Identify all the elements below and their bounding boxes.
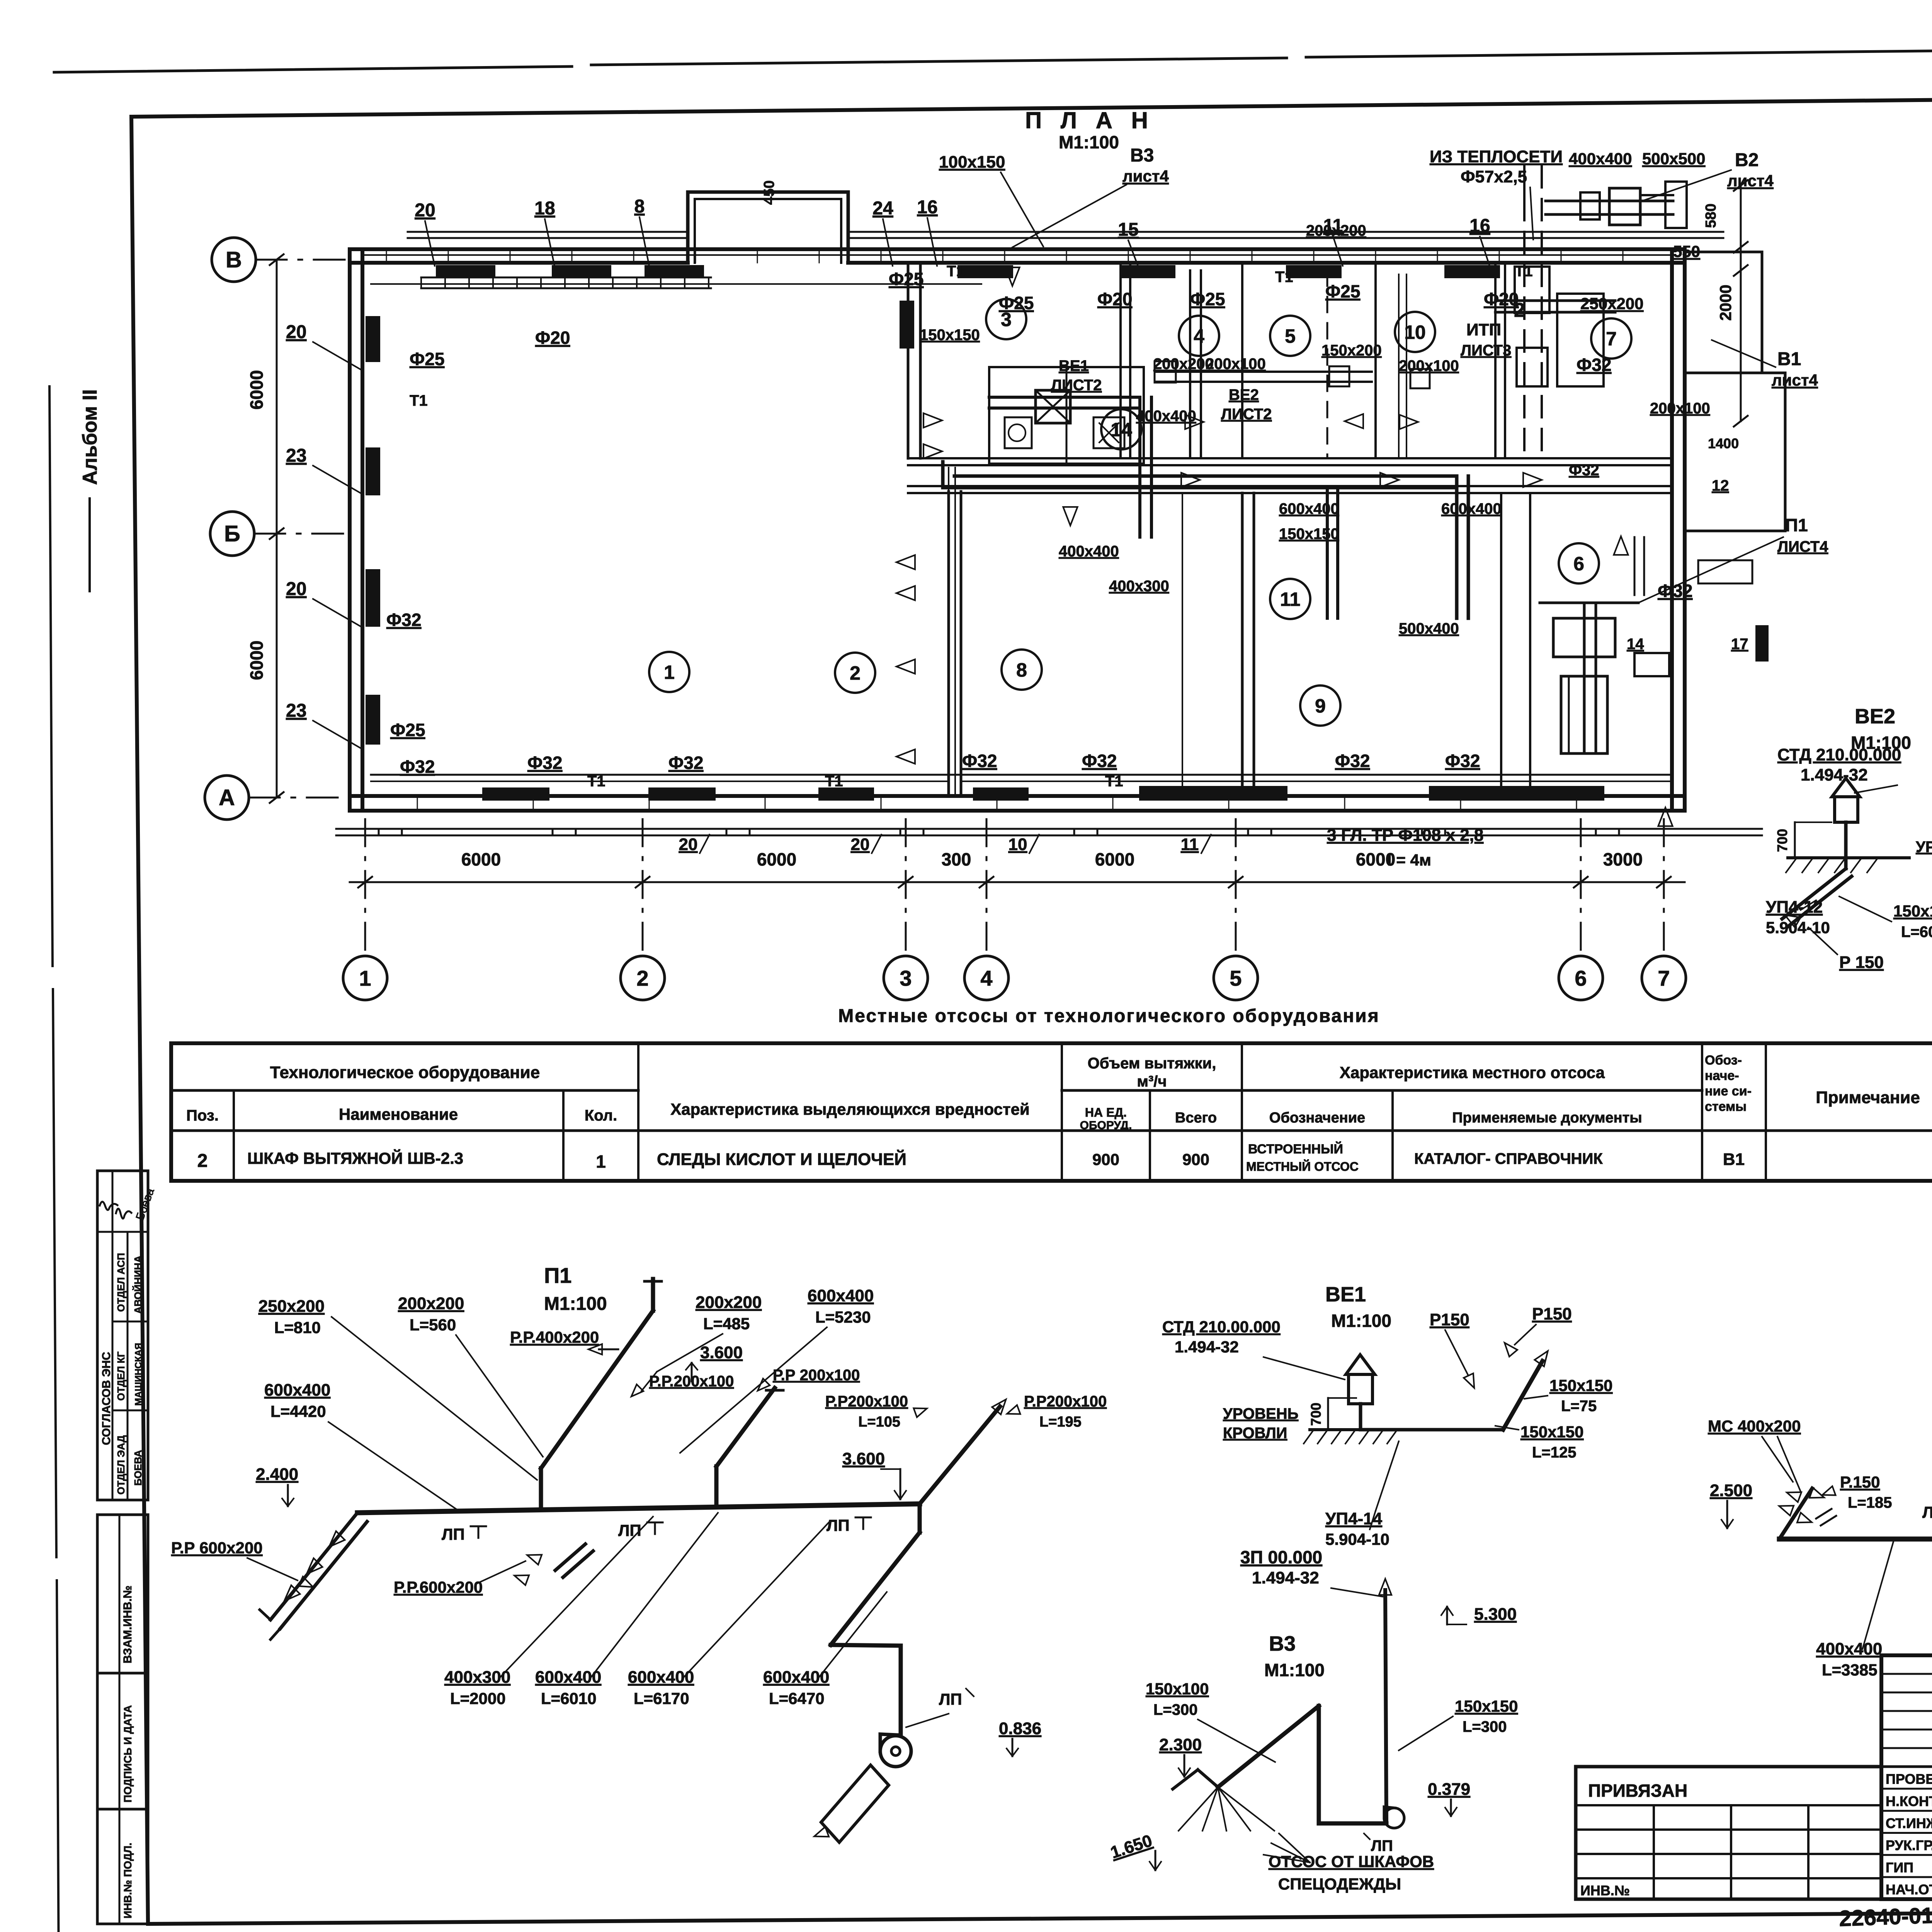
svg-text:Ф25: Ф25	[390, 720, 425, 740]
B3 fan blades	[1179, 1787, 1218, 1831]
svg-text:КАТАЛОГ- СПРАВОЧНИК: КАТАЛОГ- СПРАВОЧНИК	[1414, 1150, 1603, 1167]
svg-text:Кол.: Кол.	[585, 1107, 617, 1124]
svg-text:2: 2	[850, 662, 861, 684]
svg-text:ВЕ2: ВЕ2	[1855, 705, 1895, 728]
svg-text:Н.КОНТР.: Н.КОНТР.	[1886, 1793, 1932, 1809]
svg-text:L=6170: L=6170	[634, 1689, 689, 1708]
svg-text:стемы: стемы	[1705, 1099, 1747, 1114]
grille under wall	[421, 277, 711, 279]
svg-text:400x400: 400x400	[1816, 1639, 1882, 1658]
B2 left end	[1779, 1488, 1812, 1539]
svg-text:Ф20: Ф20	[1484, 289, 1519, 309]
svg-text:Р150: Р150	[1430, 1310, 1469, 1329]
svg-text:L=6470: L=6470	[769, 1689, 825, 1708]
svg-text:Р150: Р150	[1532, 1304, 1572, 1323]
svg-text:600x400: 600x400	[1441, 500, 1502, 517]
svg-text:Т1: Т1	[410, 392, 428, 409]
svg-text:ИТП: ИТП	[1466, 320, 1501, 339]
svg-text:ЛП: ЛП	[618, 1521, 641, 1539]
svg-text:5: 5	[1230, 966, 1242, 990]
svg-text:Ф25: Ф25	[1325, 281, 1360, 301]
svg-text:СТД 210.00.000: СТД 210.00.000	[1162, 1318, 1281, 1336]
svg-text:ОТДЕЛ ЭАД: ОТДЕЛ ЭАД	[115, 1435, 127, 1495]
svg-text:ИНВ.№: ИНВ.№	[1580, 1883, 1630, 1898]
svg-text:СПЕЦОДЕЖДЫ: СПЕЦОДЕЖДЫ	[1278, 1875, 1401, 1893]
svg-text:НАЧ.ОТД.: НАЧ.ОТД.	[1886, 1881, 1932, 1897]
svg-text:АВОЙНИНА: АВОЙНИНА	[132, 1255, 144, 1314]
svg-text:L=3385: L=3385	[1822, 1661, 1878, 1679]
svg-text:наче-: наче-	[1705, 1068, 1739, 1083]
corridor duct	[954, 474, 1457, 478]
svg-text:150x150: 150x150	[1279, 526, 1339, 543]
svg-text:УРОВЕНЬ: УРОВЕНЬ	[1223, 1405, 1298, 1422]
svg-text:М1:100: М1:100	[1851, 733, 1911, 753]
svg-text:400x400: 400x400	[1136, 408, 1196, 425]
svg-text:Р.Р.600x200: Р.Р.600x200	[394, 1578, 483, 1596]
svg-text:4: 4	[1194, 325, 1204, 347]
svg-text:600x400: 600x400	[1279, 500, 1339, 517]
svg-text:5: 5	[1285, 325, 1296, 347]
svg-text:МЕСТНЫЙ ОТСОС: МЕСТНЫЙ ОТСОС	[1246, 1160, 1359, 1173]
main frame border	[131, 93, 1932, 117]
heating pipes	[371, 774, 1669, 776]
svg-text:100x150: 100x150	[939, 153, 1005, 172]
svg-text:2.300: 2.300	[1159, 1735, 1202, 1754]
svg-text:Р.Р.400x200: Р.Р.400x200	[510, 1328, 599, 1346]
svg-text:лист4: лист4	[1727, 172, 1774, 190]
sheet outer top edge	[54, 66, 572, 72]
VE2 stack	[1835, 797, 1858, 822]
P1 fan outlet rhombus	[821, 1765, 889, 1842]
svg-text:2: 2	[197, 1151, 208, 1171]
svg-text:Характеристика выделяющихся: Характеристика выделяющихся вредностей	[670, 1100, 1030, 1118]
sheet outer left edge	[49, 386, 53, 966]
privyazan block	[1576, 1767, 1881, 1899]
svg-text:Ф32: Ф32	[962, 751, 997, 771]
svg-text:П Л А Н: П Л А Н	[1025, 107, 1154, 133]
svg-text:L=2000: L=2000	[450, 1689, 506, 1708]
svg-text:5.904-10: 5.904-10	[1766, 918, 1830, 937]
svg-text:Применяемые документы: Применяемые документы	[1452, 1110, 1642, 1126]
svg-text:Р.Р200x100: Р.Р200x100	[1024, 1393, 1107, 1410]
VE1 700 dim	[1327, 1398, 1329, 1430]
svg-text:ние си-: ние си-	[1705, 1084, 1752, 1099]
svg-text:23: 23	[286, 701, 306, 721]
svg-text:Т1: Т1	[947, 263, 965, 280]
VE2 duct diagonal	[1844, 860, 1848, 869]
svg-text:УРОВЕНЬ КРОВЛИ: УРОВЕНЬ КРОВЛИ	[1916, 838, 1932, 855]
svg-text:20: 20	[679, 835, 698, 854]
svg-text:14: 14	[1111, 419, 1132, 440]
svg-text:ИЗ ТЕПЛОСЕТИ: ИЗ ТЕПЛОСЕТИ	[1430, 147, 1563, 166]
svg-text:450: 450	[761, 180, 777, 205]
svg-text:ЛП: ЛП	[1922, 1503, 1932, 1521]
svg-text:L=810: L=810	[274, 1318, 321, 1337]
svg-text:11: 11	[1280, 588, 1301, 610]
column circles	[343, 956, 387, 1000]
svg-text:В2: В2	[1735, 150, 1759, 170]
svg-text:Р 150: Р 150	[1839, 953, 1884, 972]
svg-text:17: 17	[1731, 636, 1748, 653]
svg-text:Р.Р.200x100: Р.Р.200x100	[649, 1373, 734, 1390]
svg-text:Альбом II: Альбом II	[79, 389, 101, 485]
svg-text:8: 8	[634, 196, 645, 217]
svg-text:23: 23	[286, 446, 306, 466]
svg-text:ЛП: ЛП	[442, 1525, 465, 1543]
svg-text:2: 2	[636, 966, 648, 990]
title block main stamp	[1881, 1655, 1932, 1899]
svg-text:400x300: 400x300	[1109, 578, 1169, 595]
VE2 roof line	[1788, 856, 1909, 859]
svg-text:В1: В1	[1723, 1150, 1745, 1169]
svg-text:П1: П1	[1785, 515, 1808, 535]
svg-text:ОТСОС ОТ ШКАФОВ: ОТСОС ОТ ШКАФОВ	[1269, 1852, 1434, 1871]
P1 riser 1	[539, 1468, 543, 1509]
svg-text:0.836: 0.836	[999, 1719, 1041, 1738]
axis dim line vertical	[276, 260, 278, 798]
ITP dashed ducts	[1523, 166, 1526, 456]
svg-text:500x400: 500x400	[1399, 620, 1459, 637]
svg-text:КРОВЛИ: КРОВЛИ	[1223, 1425, 1287, 1442]
middle table grid	[171, 1043, 1932, 1181]
svg-text:Ф25: Ф25	[889, 269, 923, 289]
svg-text:НА ЕД.: НА ЕД.	[1085, 1105, 1127, 1119]
svg-text:Ф57х2,5: Ф57х2,5	[1461, 167, 1527, 186]
svg-text:700: 700	[1774, 829, 1790, 852]
door triangles	[923, 413, 942, 427]
svg-text:СТ.ИНЖ.: СТ.ИНЖ.	[1886, 1815, 1932, 1831]
svg-text:3000: 3000	[1603, 849, 1643, 869]
svg-text:L=105: L=105	[858, 1414, 900, 1430]
svg-text:12: 12	[1712, 477, 1729, 494]
svg-text:150x150: 150x150	[1893, 902, 1932, 920]
svg-text:10: 10	[1404, 321, 1426, 343]
plan outer walls	[350, 247, 1685, 251]
svg-text:Характеристика местного отсо: Характеристика местного отсоса	[1340, 1063, 1605, 1082]
svg-text:0.379: 0.379	[1428, 1780, 1470, 1799]
svg-text:Ф32: Ф32	[1577, 355, 1611, 375]
svg-text:В1: В1	[1777, 349, 1801, 369]
svg-text:Т1: Т1	[587, 773, 605, 790]
internal walls	[907, 263, 910, 458]
svg-text:ОБОРУД.: ОБОРУД.	[1080, 1119, 1132, 1132]
svg-text:Т1: Т1	[825, 773, 843, 790]
svg-text:МС 400x200: МС 400x200	[1708, 1417, 1801, 1435]
svg-text:150x150: 150x150	[1455, 1697, 1518, 1715]
svg-text:СЛЕДЫ КИСЛОТ И ЩЕЛОЧЕЙ: СЛЕДЫ КИСЛОТ И ЩЕЛОЧЕЙ	[657, 1149, 906, 1169]
room number circles	[649, 652, 689, 692]
plan plinth lines top	[408, 231, 688, 233]
svg-text:МАШИНСКАЯ: МАШИНСКАЯ	[133, 1343, 144, 1406]
svg-text:Обозначение: Обозначение	[1269, 1110, 1365, 1126]
svg-text:М1:100: М1:100	[544, 1294, 607, 1314]
svg-text:150x100: 150x100	[1146, 1680, 1209, 1698]
VE1 stack	[1349, 1374, 1372, 1404]
heat main pipes	[1523, 166, 1526, 205]
svg-text:16: 16	[917, 197, 937, 218]
svg-text:3П 00.000: 3П 00.000	[1240, 1547, 1322, 1567]
svg-text:150x150: 150x150	[920, 327, 980, 344]
svg-text:L=300: L=300	[1463, 1718, 1507, 1735]
svg-text:Ф25: Ф25	[410, 349, 444, 369]
VE2 700 dim	[1794, 822, 1796, 858]
svg-text:Ф32: Ф32	[386, 610, 421, 630]
plan plinth lines bottom	[336, 828, 1762, 830]
svg-text:Т1: Т1	[1105, 773, 1123, 790]
svg-text:6000: 6000	[1095, 849, 1134, 869]
svg-text:ВЕ1: ВЕ1	[1059, 357, 1089, 374]
svg-text:Т1: Т1	[1275, 269, 1293, 286]
svg-text:3: 3	[900, 966, 912, 990]
svg-text:1.494-32: 1.494-32	[1252, 1568, 1319, 1587]
radiators	[437, 266, 495, 277]
svg-text:3.600: 3.600	[700, 1343, 743, 1362]
svg-text:24: 24	[872, 198, 893, 219]
svg-text:900: 900	[1182, 1150, 1209, 1168]
svg-text:ВЕ2: ВЕ2	[1229, 386, 1259, 403]
stamp upper grid	[1881, 1673, 1932, 1675]
svg-text:СОГЛАСОВ ЭНС: СОГЛАСОВ ЭНС	[100, 1352, 113, 1445]
svg-text:L=300: L=300	[1153, 1701, 1198, 1718]
P1 right down branch to fan	[918, 1504, 922, 1532]
svg-text:3 ГЛ. ТР Ф108 х 2,8: 3 ГЛ. ТР Ф108 х 2,8	[1327, 826, 1483, 845]
B3 fan small	[1384, 1808, 1404, 1828]
svg-text:А: А	[219, 785, 235, 810]
svg-text:6000: 6000	[461, 849, 501, 869]
svg-text:L=5230: L=5230	[815, 1308, 871, 1326]
svg-text:В3: В3	[1269, 1632, 1296, 1655]
svg-text:ОТДЕЛ АСП: ОТДЕЛ АСП	[115, 1253, 127, 1312]
svg-text:ПРИВЯЗАН: ПРИВЯЗАН	[1588, 1781, 1687, 1801]
svg-text:L=195: L=195	[1039, 1414, 1082, 1430]
svg-text:ГИП: ГИП	[1886, 1859, 1913, 1875]
right dimension chain	[1740, 185, 1742, 421]
svg-text:Ф32: Ф32	[1335, 751, 1370, 771]
sanitary partitions	[989, 367, 1144, 464]
svg-text:м³/ч: м³/ч	[1137, 1073, 1167, 1090]
hatched duct square	[1036, 390, 1070, 423]
axis circles letters	[212, 238, 256, 282]
svg-text:L=185: L=185	[1848, 1494, 1892, 1511]
svg-text:4: 4	[980, 966, 992, 990]
svg-text:1.494-32: 1.494-32	[1801, 765, 1868, 784]
svg-text:ЛИСТ2: ЛИСТ2	[1051, 377, 1102, 394]
VE1 duct	[1361, 1428, 1503, 1432]
svg-text:l = 4м: l = 4м	[1387, 851, 1431, 869]
svg-text:Б: Б	[224, 521, 240, 546]
svg-text:200x200: 200x200	[398, 1294, 464, 1313]
svg-text:200x100: 200x100	[1206, 355, 1266, 372]
svg-text:2000: 2000	[1716, 285, 1735, 321]
B2 main line	[1779, 1537, 1932, 1542]
svg-text:Ф32: Ф32	[668, 753, 703, 773]
svg-text:400x400: 400x400	[1569, 150, 1632, 168]
svg-text:L=6010: L=6010	[541, 1689, 597, 1708]
svg-text:П1: П1	[544, 1263, 571, 1287]
svg-text:700: 700	[1308, 1403, 1324, 1426]
svg-text:150x200: 150x200	[1321, 342, 1382, 359]
svg-text:22640-01: 22640-01	[1838, 1903, 1932, 1931]
svg-text:250x200: 250x200	[1580, 294, 1644, 313]
svg-text:Обоз-: Обоз-	[1705, 1053, 1742, 1068]
podpis i data box	[97, 1673, 148, 1809]
svg-text:УП4-12: УП4-12	[1766, 898, 1823, 917]
svg-text:15: 15	[1118, 219, 1138, 240]
ventkamera equipment	[1583, 603, 1586, 753]
svg-text:L=75: L=75	[1561, 1398, 1597, 1415]
svg-text:Ф32: Ф32	[1445, 751, 1480, 771]
svg-text:20: 20	[415, 200, 435, 221]
svg-text:L=485: L=485	[703, 1315, 750, 1333]
P1 fan	[880, 1736, 911, 1767]
svg-text:ИНВ.№ ПОДЛ.: ИНВ.№ ПОДЛ.	[122, 1843, 134, 1918]
svg-text:Поз.: Поз.	[186, 1107, 219, 1124]
svg-text:11: 11	[1181, 835, 1199, 854]
svg-text:ВЕ1: ВЕ1	[1325, 1283, 1366, 1306]
svg-text:Ф32: Ф32	[1082, 751, 1117, 771]
porch outline	[688, 192, 848, 263]
svg-text:лист4: лист4	[1122, 167, 1169, 185]
svg-text:6000: 6000	[757, 849, 796, 869]
svg-text:L=60: L=60	[1901, 923, 1932, 940]
svg-text:600x400: 600x400	[808, 1286, 874, 1305]
svg-text:20: 20	[286, 579, 306, 599]
svg-text:250x200: 250x200	[259, 1297, 325, 1316]
svg-text:9: 9	[1315, 695, 1326, 717]
svg-text:Р.Р 600x200: Р.Р 600x200	[171, 1539, 263, 1557]
svg-text:200x200: 200x200	[696, 1293, 762, 1312]
svg-text:ВЗАМ.ИНВ.№: ВЗАМ.ИНВ.№	[121, 1585, 134, 1663]
svg-text:10: 10	[1009, 835, 1027, 854]
P1 left intake grille	[270, 1513, 357, 1620]
svg-text:600x400: 600x400	[264, 1381, 330, 1400]
svg-text:1400: 1400	[1708, 435, 1739, 451]
svg-text:М1:100: М1:100	[1059, 132, 1119, 152]
right annex	[1685, 373, 1785, 531]
bottom dimension line	[350, 881, 1685, 883]
svg-text:150x150: 150x150	[1549, 1376, 1613, 1395]
svg-text:РУК.ГР.: РУК.ГР.	[1886, 1837, 1932, 1853]
svg-text:6000: 6000	[247, 641, 267, 680]
B3 duct shape	[1218, 1706, 1319, 1787]
svg-text:6: 6	[1575, 966, 1587, 990]
svg-text:Ф32: Ф32	[400, 757, 435, 777]
svg-text:Наименование: Наименование	[339, 1105, 458, 1123]
svg-text:1: 1	[596, 1151, 606, 1172]
svg-text:ЛИСТ4: ЛИСТ4	[1777, 538, 1828, 555]
svg-text:Объем вытяжки,: Объем вытяжки,	[1088, 1055, 1216, 1072]
svg-text:7: 7	[1606, 328, 1617, 350]
svg-text:5.300: 5.300	[1474, 1605, 1517, 1624]
svg-text:Ф32: Ф32	[527, 753, 562, 773]
P1 right up branch	[920, 1406, 1000, 1504]
svg-text:ЛИСТ3: ЛИСТ3	[1461, 342, 1511, 359]
svg-text:ВСТРОЕННЫЙ: ВСТРОЕННЫЙ	[1248, 1141, 1343, 1156]
svg-text:ЛП: ЛП	[939, 1690, 962, 1708]
svg-text:150x150: 150x150	[1520, 1423, 1584, 1441]
inv n podl box	[97, 1809, 148, 1924]
svg-text:200x200: 200x200	[1306, 222, 1366, 239]
svg-text:ПОДПИСЬ И ДАТА: ПОДПИСЬ И ДАТА	[122, 1705, 134, 1803]
svg-text:В: В	[226, 247, 242, 272]
svg-text:Всего: Всего	[1175, 1110, 1217, 1126]
svg-text:Р.Р 200x100: Р.Р 200x100	[773, 1367, 860, 1384]
svg-text:1: 1	[359, 966, 371, 990]
svg-text:L=125: L=125	[1532, 1444, 1577, 1461]
left stamp strip boxes	[97, 1171, 148, 1500]
svg-text:900: 900	[1092, 1150, 1119, 1168]
svg-text:18: 18	[534, 198, 555, 219]
svg-text:Р.Р200x100: Р.Р200x100	[825, 1393, 908, 1410]
svg-text:ШКАФ ВЫТЯЖНОЙ ШВ-2.3: ШКАФ ВЫТЯЖНОЙ ШВ-2.3	[247, 1149, 463, 1167]
svg-text:200x200: 200x200	[1153, 355, 1214, 372]
svg-text:Т1: Т1	[1515, 263, 1533, 280]
svg-text:20: 20	[851, 835, 870, 854]
svg-text:7: 7	[1658, 966, 1670, 990]
svg-text:1: 1	[664, 662, 675, 683]
svg-text:2.400: 2.400	[256, 1465, 298, 1484]
svg-text:300: 300	[942, 849, 971, 869]
svg-text:200x100: 200x100	[1650, 400, 1710, 417]
svg-text:2.500: 2.500	[1710, 1481, 1752, 1500]
svg-text:Ф20: Ф20	[1097, 289, 1132, 309]
svg-text:ОТДЕЛ КГ: ОТДЕЛ КГ	[115, 1351, 127, 1401]
svg-text:550: 550	[1673, 242, 1700, 260]
svg-text:L=560: L=560	[410, 1316, 456, 1334]
svg-text:лист4: лист4	[1772, 371, 1818, 389]
svg-text:3.600: 3.600	[842, 1449, 885, 1468]
svg-text:ЛП: ЛП	[1371, 1837, 1393, 1854]
svg-text:6000: 6000	[247, 370, 267, 410]
svg-text:5.904-10: 5.904-10	[1325, 1530, 1389, 1548]
svg-text:ЛИСТ2: ЛИСТ2	[1221, 406, 1272, 423]
svg-text:Ф25: Ф25	[999, 293, 1034, 313]
svg-text:6: 6	[1573, 553, 1584, 575]
svg-text:16: 16	[1469, 216, 1490, 236]
svg-text:L=4420: L=4420	[270, 1402, 326, 1420]
VE1 roof line with hatch	[1310, 1428, 1464, 1431]
svg-text:14: 14	[1627, 636, 1644, 653]
window sill strip	[363, 254, 1672, 256]
svg-text:БОЕВА: БОЕВА	[132, 1450, 144, 1486]
svg-text:400x400: 400x400	[1059, 543, 1119, 560]
svg-text:8: 8	[1016, 659, 1027, 681]
svg-text:500x500: 500x500	[1642, 150, 1706, 168]
svg-text:1.494-32: 1.494-32	[1175, 1338, 1239, 1356]
svg-text:Ф32: Ф32	[1569, 462, 1599, 479]
svg-text:Местные отсосы от технологи: Местные отсосы от технологического обору…	[838, 1006, 1379, 1026]
svg-text:ПРОВЕР.: ПРОВЕР.	[1886, 1771, 1932, 1787]
svg-text:Ф25: Ф25	[1190, 289, 1225, 309]
svg-text:Технологическое оборудование: Технологическое оборудование	[270, 1063, 540, 1082]
svg-text:580: 580	[1703, 204, 1719, 228]
P1 riser 2	[714, 1466, 719, 1506]
svg-text:Примечание: Примечание	[1816, 1088, 1920, 1107]
svg-text:ЛП: ЛП	[827, 1516, 850, 1534]
svg-text:Р.150: Р.150	[1840, 1473, 1880, 1491]
svg-text:200x100: 200x100	[1399, 357, 1459, 374]
vzam inv box	[97, 1515, 148, 1673]
svg-text:Ф20: Ф20	[535, 328, 570, 348]
P1 main duct line	[357, 1504, 920, 1513]
svg-text:М1:100: М1:100	[1264, 1660, 1325, 1680]
svg-text:М1:100: М1:100	[1331, 1311, 1391, 1331]
svg-text:В3: В3	[1130, 145, 1154, 166]
svg-text:20: 20	[286, 322, 306, 342]
